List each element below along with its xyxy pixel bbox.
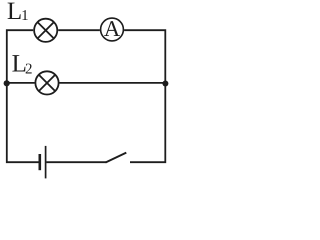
svg-text:2: 2 xyxy=(25,61,33,77)
svg-text:A: A xyxy=(104,16,121,41)
svg-text:L: L xyxy=(7,0,22,25)
svg-text:1: 1 xyxy=(21,8,29,24)
